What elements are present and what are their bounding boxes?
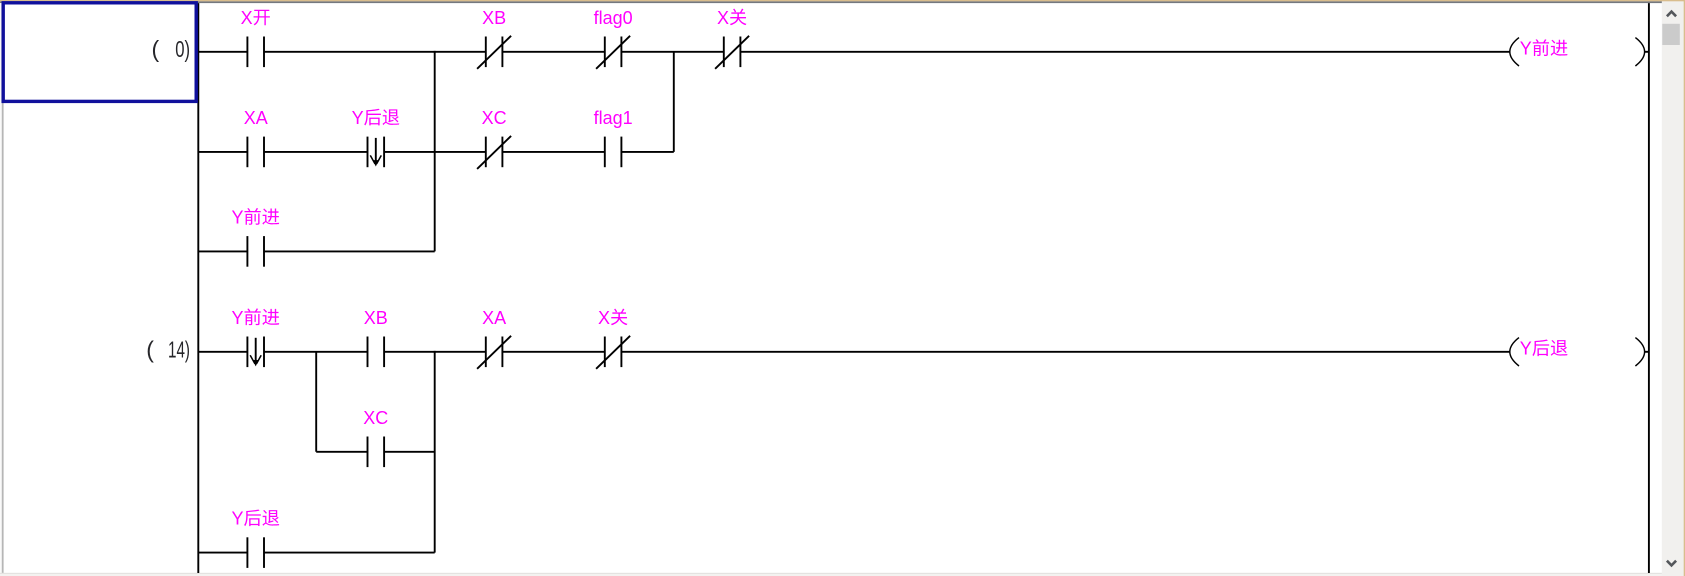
wire node C vertical rung4-branch bbox=[315, 352, 317, 452]
contact XA (NO) bbox=[247, 137, 264, 168]
selection cursor (blue cell) bbox=[3, 3, 196, 102]
label XB bbox=[364, 308, 388, 328]
label flag0 bbox=[594, 8, 633, 28]
label Y后退 bbox=[232, 509, 280, 529]
label X关 bbox=[598, 308, 627, 328]
svg-text:XA: XA bbox=[244, 108, 268, 128]
coil label Y后退 bbox=[1520, 339, 1568, 359]
wire node A vertical rung1-rung3 bbox=[434, 52, 436, 252]
label XB bbox=[482, 8, 506, 28]
wire rung1 X开 to node A bbox=[264, 51, 436, 53]
svg-text:X: X bbox=[241, 8, 253, 28]
svg-text:XA: XA bbox=[482, 308, 506, 328]
wire branch node C to XC bbox=[316, 451, 367, 453]
coil label Y前进 bbox=[1520, 39, 1568, 59]
svg-text:Y: Y bbox=[232, 207, 244, 227]
contact flag0 (NC) bbox=[596, 36, 630, 69]
wire node B vertical rung1-rung2 bbox=[673, 52, 675, 152]
svg-text:XC: XC bbox=[363, 408, 388, 428]
wire rung1 flag0 past node B to X关 bbox=[621, 51, 723, 53]
label flag1 bbox=[594, 108, 633, 128]
svg-text:Y: Y bbox=[1520, 339, 1532, 359]
window right tan border bbox=[1684, 0, 1685, 576]
left power rail bbox=[197, 3, 199, 573]
svg-text:XB: XB bbox=[482, 8, 506, 28]
window bottom light strip bbox=[0, 573, 1662, 574]
wire rung4 XB to node D bbox=[384, 351, 436, 353]
contact XB (NC) bbox=[477, 36, 511, 69]
wire rung2 flag1 to node B bbox=[621, 151, 673, 153]
scrollbar track bbox=[1662, 1, 1684, 576]
svg-text:Y: Y bbox=[232, 509, 244, 529]
wire rung2 XA to Y后退 bbox=[264, 151, 368, 153]
svg-text:14): 14) bbox=[168, 336, 190, 362]
svg-text:flag1: flag1 bbox=[594, 108, 633, 128]
contact flag1 (NO) bbox=[605, 137, 622, 168]
wire rung1 node A to XB bbox=[434, 51, 486, 53]
svg-text:Y: Y bbox=[1520, 39, 1532, 59]
scrollbar down arrow bbox=[1667, 561, 1676, 566]
contact XA (NC) bbox=[477, 336, 511, 369]
window left border bbox=[0, 3, 1, 573]
label X关 bbox=[717, 8, 746, 28]
contact Y前进 (NO) bbox=[247, 236, 264, 267]
coil Y后退 bbox=[1510, 338, 1645, 366]
label Y后退 bbox=[352, 108, 400, 128]
wire rung1 rail to X开 bbox=[198, 51, 247, 53]
svg-text:Y: Y bbox=[352, 108, 364, 128]
coil Y前进 bbox=[1510, 38, 1645, 66]
svg-text:0): 0) bbox=[175, 36, 190, 62]
wire rung4 node D to XA bbox=[434, 351, 486, 353]
contact X开 (NO) bbox=[247, 37, 264, 68]
wire rung3 rail to Y前进 bbox=[198, 250, 247, 252]
wire node D vertical rung4-rung6 bbox=[434, 352, 436, 553]
wire rung4 rail to Y前进 bbox=[198, 351, 247, 353]
svg-text:XC: XC bbox=[482, 108, 507, 128]
svg-text:X: X bbox=[598, 308, 610, 328]
label XA bbox=[482, 308, 506, 328]
contact XB (NO) bbox=[368, 337, 385, 368]
label Y前进 bbox=[232, 207, 280, 227]
wire branch XC to node D bbox=[384, 451, 435, 453]
wire rung2 Y后退 past node A to XC bbox=[384, 151, 486, 153]
right power rail bbox=[1648, 3, 1650, 573]
label Y前进 bbox=[232, 308, 280, 328]
svg-text:Y: Y bbox=[232, 308, 244, 328]
wire rung1 X关 to coil Y前进 bbox=[740, 51, 1510, 53]
wire rung2 XC to flag1 bbox=[502, 151, 604, 153]
wire rung1 XB to flag0 bbox=[502, 51, 604, 53]
wire rung2 rail to XA bbox=[198, 151, 247, 153]
svg-text:(: ( bbox=[152, 36, 160, 62]
scrollbar up arrow bbox=[1667, 12, 1676, 17]
wire rung6 rail to Y后退 bbox=[198, 552, 247, 554]
wire rung4 Y前进 past node C to XB bbox=[264, 351, 368, 353]
wire rung3 Y前进 to node A bbox=[264, 250, 435, 252]
contact X关 (NC) bbox=[715, 36, 749, 69]
svg-text:X: X bbox=[717, 8, 729, 28]
wire rung1 coil to right rail bbox=[1645, 51, 1649, 53]
label XC bbox=[363, 408, 388, 428]
scrollbar thumb bbox=[1662, 24, 1680, 45]
wire rung4 X关 to coil Y后退 bbox=[621, 351, 1510, 353]
window top gray shadow line bbox=[0, 1, 1662, 3]
contact XC (NC) bbox=[477, 136, 511, 169]
wire rung4 coil to right rail bbox=[1645, 351, 1649, 353]
wire rung6 Y后退 to node D bbox=[264, 552, 435, 554]
contact XC (NO) bbox=[368, 437, 385, 468]
contact Y后退 (NO) bbox=[247, 537, 264, 568]
contact X关 (NC) bbox=[596, 336, 630, 369]
label X开 bbox=[241, 8, 270, 28]
svg-text:(: ( bbox=[146, 336, 154, 362]
contact Y前进 (falling edge) bbox=[247, 337, 264, 368]
contact Y后退 (falling edge) bbox=[368, 137, 385, 168]
svg-text:XB: XB bbox=[364, 308, 388, 328]
label XA bbox=[244, 108, 268, 128]
window top tan border bbox=[0, 0, 1685, 1]
wire rung4 XA to X关 bbox=[502, 351, 604, 353]
svg-text:flag0: flag0 bbox=[594, 8, 633, 28]
label XC bbox=[482, 108, 507, 128]
